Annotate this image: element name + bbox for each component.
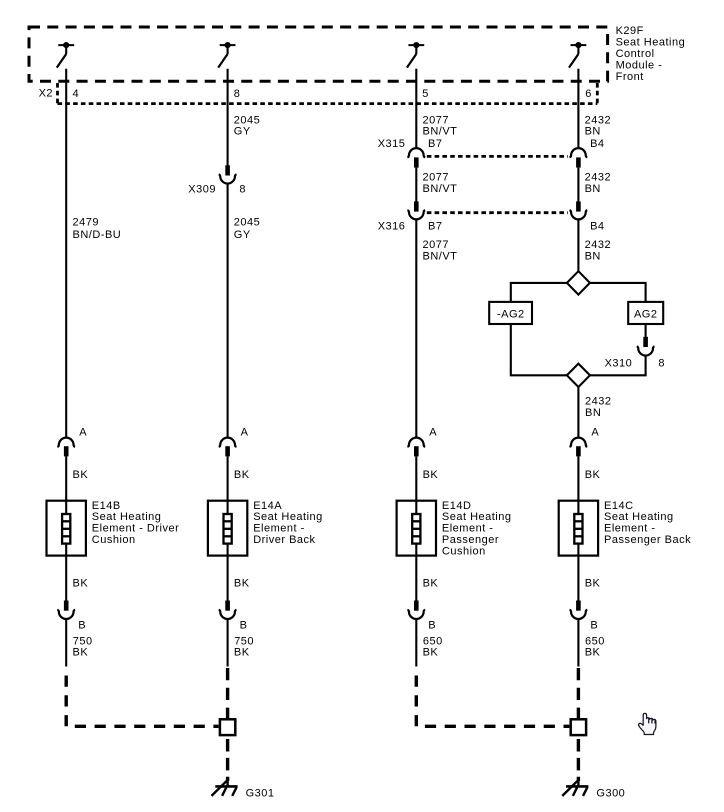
svg-text:X309: X309 bbox=[188, 184, 216, 196]
svg-text:B: B bbox=[78, 619, 86, 631]
svg-text:X316: X316 bbox=[378, 221, 406, 233]
wire 2432 BN from bottom diamond to E14C terminal A bbox=[577, 387, 579, 438]
svg-text:BN: BN bbox=[585, 126, 601, 138]
splice diamond (bottom) bbox=[567, 364, 590, 387]
svg-text:BN/VT: BN/VT bbox=[423, 183, 458, 195]
svg-text:BK: BK bbox=[423, 578, 439, 590]
wire 2432 BN from X316 to splice diamond bbox=[577, 219, 579, 271]
svg-text:K29F: K29F bbox=[616, 25, 644, 37]
svg-text:2045: 2045 bbox=[234, 216, 260, 228]
switch contact in K29F for driver cushion output bbox=[57, 42, 74, 68]
svg-text:B: B bbox=[428, 619, 436, 631]
svg-text:Passenger: Passenger bbox=[442, 534, 499, 546]
switch contact in K29F for passenger back output bbox=[569, 42, 586, 68]
fuse box AG2 bbox=[628, 302, 663, 324]
terminal A of E14A bbox=[219, 438, 237, 457]
svg-text:A: A bbox=[591, 427, 599, 439]
inline connector X316 pin B4 bbox=[570, 201, 588, 219]
label E14C bbox=[604, 500, 691, 546]
dashed ground wire 650 BK from E14D to splice bbox=[416, 676, 569, 727]
label circuit 2479 BN/D-BU bbox=[73, 216, 122, 240]
svg-text:GY: GY bbox=[234, 229, 251, 241]
svg-text:B: B bbox=[240, 619, 248, 631]
label circuit 2045 GY (upper) bbox=[234, 114, 260, 137]
dashed ground wire 750 BK from E14A to splice bbox=[226, 668, 229, 719]
svg-text:650: 650 bbox=[423, 635, 443, 647]
svg-text:BK: BK bbox=[423, 647, 439, 659]
svg-text:4: 4 bbox=[73, 88, 80, 100]
svg-text:BK: BK bbox=[585, 578, 601, 590]
terminal A of E14D bbox=[407, 438, 425, 457]
label circuit 2432 BN (upper) bbox=[585, 114, 611, 137]
svg-text:Driver Back: Driver Back bbox=[253, 534, 315, 546]
svg-text:2077: 2077 bbox=[423, 239, 449, 251]
svg-text:Front: Front bbox=[616, 71, 644, 83]
inline connector X315 pin B7 bbox=[407, 148, 425, 167]
heating element E14B bbox=[47, 501, 86, 556]
svg-text:BK: BK bbox=[73, 578, 89, 590]
svg-text:E14A: E14A bbox=[253, 500, 282, 512]
wire 2432 BN from X315 to X316 bbox=[577, 168, 579, 202]
svg-text:B4: B4 bbox=[590, 138, 604, 150]
svg-text:2045: 2045 bbox=[234, 114, 260, 126]
svg-text:650: 650 bbox=[585, 635, 605, 647]
inline connector X315 pin B4 bbox=[570, 148, 588, 167]
svg-text:BK: BK bbox=[585, 647, 601, 659]
svg-text:B: B bbox=[590, 619, 598, 631]
heating element E14C bbox=[559, 501, 598, 556]
label K29F Seat Heating Control Module - Front bbox=[616, 25, 686, 83]
wire 650 BK below terminal B bbox=[415, 619, 417, 667]
svg-text:8: 8 bbox=[234, 88, 241, 100]
dashed wire splice to G301 bbox=[226, 735, 229, 781]
svg-text:E14C: E14C bbox=[604, 500, 634, 512]
svg-text:A: A bbox=[429, 427, 437, 439]
svg-text:BK: BK bbox=[234, 578, 250, 590]
wire BK E14A to terminal B bbox=[227, 544, 229, 600]
svg-text:750: 750 bbox=[234, 635, 254, 647]
svg-text:A: A bbox=[241, 427, 249, 439]
terminal A of E14C bbox=[570, 438, 588, 457]
svg-text:B7: B7 bbox=[428, 138, 442, 150]
label circuit 2045 GY (lower) bbox=[234, 216, 260, 240]
splice diamond (top) bbox=[567, 271, 590, 294]
svg-text:X2: X2 bbox=[39, 88, 53, 100]
svg-text:Control: Control bbox=[616, 48, 655, 60]
heating element E14D bbox=[397, 501, 436, 556]
label circuit 2077 BN/VT (upper) bbox=[423, 114, 458, 137]
ground G300 bbox=[562, 779, 588, 796]
svg-text:8: 8 bbox=[658, 358, 665, 370]
inline connector X309 pin 8 bbox=[219, 165, 237, 183]
wire 750 BK below terminal B bbox=[65, 619, 67, 667]
svg-text:8: 8 bbox=[239, 184, 246, 196]
wire BK terminal A to E14B bbox=[65, 456, 67, 513]
svg-text:G300: G300 bbox=[596, 788, 625, 800]
wire 2432 BN from K29F pin 6 to X315 bbox=[577, 69, 579, 148]
terminal B of E14C bbox=[570, 601, 588, 619]
label circuit 650 BK bbox=[423, 635, 443, 658]
fuse box -AG2 bbox=[489, 302, 532, 324]
heating element E14A bbox=[208, 501, 247, 556]
label circuit 650 BK bbox=[585, 635, 605, 658]
svg-text:2077: 2077 bbox=[423, 114, 449, 126]
wire 2045 GY from X309 to E14A terminal A bbox=[227, 184, 229, 438]
svg-text:BN/VT: BN/VT bbox=[423, 126, 458, 138]
wire 2077 BN/VT from X315 to X316 bbox=[415, 168, 417, 202]
terminal A of E14B bbox=[57, 438, 75, 457]
svg-text:BN/D-BU: BN/D-BU bbox=[73, 229, 122, 241]
inline connector X310 pin 8 bbox=[637, 337, 655, 356]
terminal B of E14A bbox=[219, 601, 237, 619]
svg-text:BN: BN bbox=[585, 407, 601, 419]
terminal B of E14B bbox=[57, 601, 75, 619]
label circuit 2432 BN (middle) bbox=[585, 172, 611, 195]
svg-text:Element -: Element - bbox=[253, 523, 305, 535]
svg-text:X310: X310 bbox=[605, 358, 633, 370]
svg-text:BK: BK bbox=[234, 469, 250, 481]
svg-text:A: A bbox=[79, 427, 87, 439]
svg-text:BK: BK bbox=[585, 469, 601, 481]
wire BK terminal A to E14C bbox=[577, 456, 579, 513]
svg-text:AG2: AG2 bbox=[634, 309, 658, 321]
label circuit 2432 BN (below X316) bbox=[585, 239, 611, 262]
wire from top diamond to -AG2 fuse bbox=[511, 283, 567, 302]
wire BK E14D to terminal B bbox=[415, 544, 417, 600]
svg-text:750: 750 bbox=[73, 635, 93, 647]
dotted harness line X315 bbox=[427, 155, 568, 158]
ground splice (passenger side) bbox=[571, 719, 586, 735]
wire BK terminal A to E14D bbox=[415, 456, 417, 513]
terminal B of E14D bbox=[407, 601, 425, 619]
wire BK terminal A to E14A bbox=[227, 456, 229, 513]
svg-text:BN: BN bbox=[585, 251, 601, 263]
svg-text:2479: 2479 bbox=[73, 216, 99, 228]
switch contact in K29F for driver back output bbox=[218, 42, 235, 68]
svg-text:Seat Heating: Seat Heating bbox=[92, 511, 162, 523]
svg-text:Element - Driver: Element - Driver bbox=[92, 523, 179, 535]
wire 750 BK below terminal B bbox=[227, 619, 229, 667]
dashed ground wire 650 BK from E14C to splice bbox=[577, 668, 580, 719]
svg-text:Module -: Module - bbox=[616, 60, 663, 72]
label E14A bbox=[253, 500, 323, 546]
svg-text:Element -: Element - bbox=[604, 523, 656, 535]
wire from AG2 to X310 bbox=[645, 324, 647, 337]
label E14D bbox=[442, 500, 512, 558]
label circuit 750 BK bbox=[73, 635, 93, 658]
svg-text:-AG2: -AG2 bbox=[497, 309, 525, 321]
label circuit 2077 BN/VT (lower) bbox=[423, 239, 458, 262]
wire from top diamond to AG2 fuse bbox=[590, 283, 646, 302]
svg-text:X315: X315 bbox=[378, 138, 406, 150]
wire 2077 BN/VT from X316 to E14D terminal A bbox=[415, 219, 417, 437]
switch contact in K29F for passenger cushion output bbox=[407, 42, 424, 68]
svg-text:Element -: Element - bbox=[442, 523, 494, 535]
module K29F (Seat Heating Control Module - Front) dashed outline bbox=[29, 27, 608, 81]
svg-text:BN/VT: BN/VT bbox=[423, 251, 458, 263]
label circuit 2432 BN (below diamond) bbox=[585, 396, 611, 419]
label circuit 750 BK bbox=[234, 635, 254, 658]
svg-text:Seat Heating: Seat Heating bbox=[616, 37, 686, 49]
svg-text:E14B: E14B bbox=[92, 500, 121, 512]
wire 650 BK below terminal B bbox=[577, 619, 579, 667]
wire from -AG2 to bottom diamond bbox=[511, 324, 567, 375]
dashed ground wire 750 BK from E14B to splice bbox=[66, 676, 218, 727]
svg-text:5: 5 bbox=[422, 88, 429, 100]
ground G301 bbox=[212, 779, 238, 796]
svg-text:2077: 2077 bbox=[423, 172, 449, 184]
wire from X310 to bottom diamond bbox=[590, 356, 646, 376]
svg-text:Cushion: Cushion bbox=[92, 534, 136, 546]
label E14B bbox=[92, 500, 179, 546]
svg-text:B7: B7 bbox=[428, 221, 442, 233]
inline connector X316 pin B7 bbox=[407, 201, 425, 219]
svg-text:G301: G301 bbox=[246, 788, 275, 800]
dotted harness line X316 bbox=[427, 211, 568, 214]
svg-text:2432: 2432 bbox=[585, 114, 611, 126]
svg-text:B4: B4 bbox=[590, 221, 604, 233]
mouse hand cursor bbox=[639, 713, 656, 734]
wire 2479 BN/D-BU from K29F pin 4 to E14B terminal A bbox=[65, 69, 67, 438]
wire BK E14B to terminal B bbox=[65, 544, 67, 600]
label circuit 2077 BN/VT (middle) bbox=[423, 172, 458, 195]
svg-text:GY: GY bbox=[234, 126, 251, 138]
svg-text:2432: 2432 bbox=[585, 172, 611, 184]
svg-text:BK: BK bbox=[423, 469, 439, 481]
connector X2 body (dotted) bbox=[58, 83, 598, 104]
wire BK E14C to terminal B bbox=[577, 544, 579, 600]
svg-text:Passenger Back: Passenger Back bbox=[604, 534, 691, 546]
svg-text:Cushion: Cushion bbox=[442, 545, 486, 557]
svg-text:2432: 2432 bbox=[585, 239, 611, 251]
svg-text:Seat Heating: Seat Heating bbox=[442, 511, 512, 523]
wire 2045 GY from K29F pin 8 to X309 bbox=[227, 69, 229, 166]
dashed wire splice to G300 bbox=[577, 735, 580, 781]
svg-text:2432: 2432 bbox=[585, 396, 611, 408]
svg-text:Seat Heating: Seat Heating bbox=[604, 511, 674, 523]
wire 2077 BN/VT from K29F pin 5 to X315 bbox=[415, 69, 417, 148]
svg-text:6: 6 bbox=[585, 88, 592, 100]
ground splice (driver side) bbox=[220, 719, 235, 735]
svg-text:BK: BK bbox=[234, 647, 250, 659]
svg-text:BN: BN bbox=[585, 183, 601, 195]
svg-text:BK: BK bbox=[73, 469, 89, 481]
svg-text:Seat Heating: Seat Heating bbox=[253, 511, 323, 523]
svg-text:BK: BK bbox=[73, 647, 89, 659]
svg-text:E14D: E14D bbox=[442, 500, 472, 512]
